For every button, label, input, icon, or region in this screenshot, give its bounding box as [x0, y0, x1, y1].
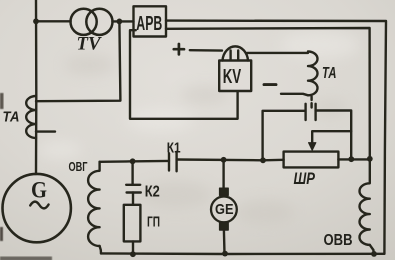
contact K1 bar right	[175, 152, 177, 172]
junction dot B (right of TV)	[117, 19, 123, 25]
svg-text:ТА: ТА	[322, 65, 337, 82]
wire: node D down to exciter GE	[222, 160, 224, 188]
svg-text:TV: TV	[77, 34, 102, 55]
wire: top bus from node A to TV	[36, 20, 71, 22]
junction dot A (top-left bus)	[33, 18, 39, 24]
rheostat SHR body	[284, 152, 339, 168]
wire: plus terminal to KV arc	[190, 49, 222, 52]
svg-text:К1: К1	[167, 140, 181, 156]
field winding OVG coil	[88, 162, 100, 246]
contact K1 bar left	[168, 153, 170, 170]
junction dot H (GP bottom)	[130, 251, 136, 257]
wire: TV to APB box	[112, 20, 133, 22]
junction dot I (GE bottom)	[222, 251, 228, 257]
mechanical link dashes from TA coil to contact	[310, 97, 312, 108]
generator G tilde	[30, 202, 48, 209]
svg-text:G: G	[31, 177, 47, 202]
junction dot F (SHR right)	[348, 156, 354, 162]
junction dot G2 (OBB top node)	[367, 156, 373, 162]
contact K2 bar top	[126, 184, 140, 186]
exciter GE circle	[211, 197, 237, 223]
wire: APB upper output to right and down outer loop	[166, 21, 386, 254]
wire: KV arc to TA right coil	[247, 52, 308, 54]
transformer TV circle 2	[86, 9, 112, 35]
scan smudge left 2	[0, 227, 3, 241]
relay coil TA (right)	[308, 52, 318, 96]
wire: generator stator vertical line to network	[35, 0, 38, 174]
minus terminal mark	[264, 83, 276, 86]
svg-text:GЕ: GЕ	[215, 201, 234, 218]
svg-text:ОВВ: ОВВ	[324, 232, 353, 249]
exciter GE brush bottom	[220, 223, 229, 230]
wire: GP resistor to bottom bus	[132, 241, 134, 254]
svg-text:АРВ: АРВ	[136, 13, 162, 35]
junction dot E (SHR left)	[260, 157, 266, 163]
transformer TV circle 1	[71, 9, 97, 35]
exciter GE brush top	[220, 188, 229, 195]
scan smudge bottom-left edge	[0, 257, 52, 260]
resistor GP body	[124, 205, 141, 242]
relay KV core tick 1	[229, 51, 231, 61]
svg-text:ГП: ГП	[147, 213, 160, 230]
generator G circle	[3, 174, 71, 242]
paper mottling	[64, 55, 348, 224]
wire: APB lower output to right and down to OBB node	[166, 28, 370, 159]
wire: main bus OVG corner to K1	[100, 160, 169, 163]
forcing contact bar right	[314, 104, 316, 120]
svg-text:ШР: ШР	[294, 170, 316, 188]
contact K2 bar bottom	[127, 191, 141, 193]
wire: forcing contact right lead down to SHR-right node	[316, 111, 352, 159]
svg-text:ТА: ТА	[3, 109, 20, 126]
wire: rheostat wiper feed bracket	[312, 131, 351, 143]
svg-text:KV: KV	[223, 66, 242, 88]
junction dot C (K2 branch)	[130, 158, 136, 164]
wire: TA right coil bottom lead to minus terminal	[281, 94, 308, 96]
wire: SHR right terminal to OBB node	[338, 158, 369, 160]
forcing contact bar left	[304, 104, 306, 120]
svg-text:К2: К2	[145, 183, 160, 200]
wire: TA left lower tap hook	[36, 130, 55, 132]
relay KV body	[219, 61, 251, 92]
wire: K1 to SHR left terminal	[177, 158, 284, 161]
regulator box APB (U1)	[134, 6, 167, 36]
exciter field winding OBB coil	[359, 159, 369, 245]
wire: GE bottom to bottom bus	[223, 230, 226, 254]
current transformer TA (left) winding	[26, 96, 36, 138]
wire: K2 to GP resistor	[132, 193, 134, 205]
wire: APB bottom-left down and across to KV bottom	[130, 30, 238, 119]
relay KV core tick 2	[237, 51, 239, 61]
wire: node B down to TA tap line	[36, 21, 120, 101]
svg-text:ОВГ: ОВГ	[69, 159, 88, 174]
junction dot D (GE top)	[221, 157, 227, 163]
plus terminal mark	[174, 44, 184, 54]
relay KV top arc	[223, 46, 249, 60]
wire: OVG bottom to bottom bus	[100, 246, 101, 253]
scan smudge left 1	[0, 93, 4, 109]
wire: OBB bottom jog to bottom bus	[370, 245, 374, 254]
wire: bottom bus	[101, 252, 384, 255]
junction dot J (OBB bottom)	[371, 251, 377, 257]
rheostat wiper arrowhead	[309, 143, 316, 151]
wire: forcing contact left lead from SHR-left node	[263, 111, 305, 161]
wire: node C down to K2	[131, 161, 133, 184]
